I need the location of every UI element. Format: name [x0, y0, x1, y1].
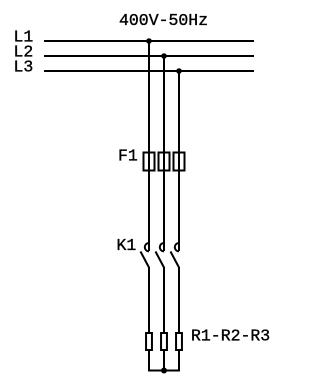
wire R2 bottom lead [163, 350, 165, 371]
wire phase2 to resistor [163, 267, 165, 332]
resistor R3 [176, 333, 182, 350]
svg-text:R1-R2-R3: R1-R2-R3 [191, 326, 270, 345]
wire L1 bus [44, 40, 254, 42]
fuse F1 phase2 [159, 153, 170, 171]
contactor K1 contact phase3 [171, 243, 180, 268]
svg-text:400V-50Hz: 400V-50Hz [119, 11, 208, 30]
wire phase3 drop [178, 71, 180, 251]
node junction L3 [176, 68, 182, 74]
wire phase3 to resistor [178, 267, 180, 332]
wire phase1 drop [148, 41, 150, 251]
wire star point bus [148, 370, 180, 372]
wire L2 bus [44, 55, 254, 57]
contactor K1 contact phase2 [156, 243, 165, 268]
fuse F1 phase1 [144, 153, 155, 171]
wire phase1 to resistor [148, 267, 150, 332]
node junction L2 [161, 53, 167, 59]
wire phase2 drop [163, 56, 165, 251]
svg-text:F1: F1 [118, 146, 138, 165]
fuse F1 phase3 [174, 153, 185, 171]
node star point [161, 368, 167, 374]
svg-text:K1: K1 [117, 236, 137, 255]
node junction L1 [146, 38, 152, 44]
contactor K1 contact phase1 [141, 243, 150, 268]
resistor R2 [161, 333, 167, 350]
svg-text:L3: L3 [14, 57, 34, 76]
wire R1 bottom lead [148, 350, 150, 371]
wire R3 bottom lead [178, 350, 180, 371]
resistor R1 [146, 333, 152, 350]
wire L3 bus [44, 70, 254, 72]
